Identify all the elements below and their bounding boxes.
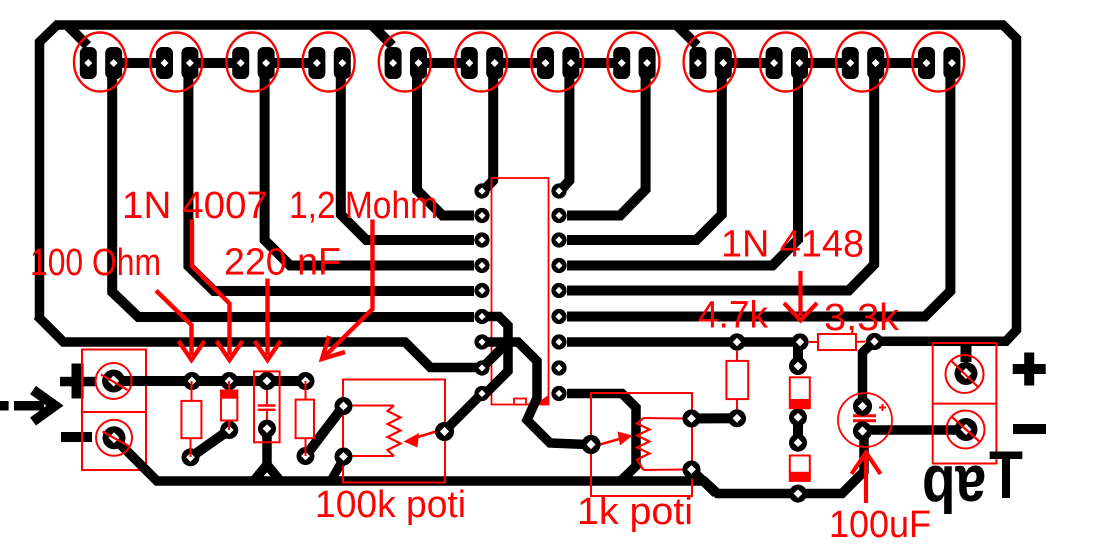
output + pad <box>946 355 984 393</box>
wire LED2 to LED3 link <box>190 58 241 68</box>
LED position 8 (pads + red circle) <box>607 33 659 92</box>
LED position 7 (pads + red circle) <box>531 33 583 92</box>
node diode1 top pad <box>789 357 807 375</box>
wire poti lower pad to bus <box>331 458 345 482</box>
node D1 bottom pad <box>220 421 238 439</box>
wire diode ladder mid dogbone <box>793 417 803 442</box>
annotation arrow 220nF <box>265 279 269 356</box>
wire LED3 to LED4 link <box>266 58 317 68</box>
node D1 top pad <box>220 372 238 390</box>
LED position 9 (pads + red circle) <box>684 33 736 92</box>
wire LED6 to LED7 link <box>495 58 546 68</box>
annotation arrow 1N4007 <box>192 220 230 356</box>
resistor 3,3k outline <box>809 334 866 350</box>
wire IC pin L6/L8/L9 internal strand <box>478 317 508 395</box>
diode 1N4148 #1 outline <box>790 377 810 408</box>
node R1 bottom pad <box>182 448 200 466</box>
input terminal box outline <box>82 350 146 471</box>
wire outer supply rail (top/left/right border) <box>40 25 1017 341</box>
wire IC pin L8 spur <box>484 342 508 366</box>
svg-text:1N 4148: 1N 4148 <box>721 224 864 266</box>
wire input+ rail <box>113 376 306 386</box>
capacitor 100uF outline <box>838 393 892 447</box>
wire top rail to LED5 left pad <box>373 26 393 46</box>
wire top rail to LED1 left pad <box>68 26 88 46</box>
svg-text:ab: ab <box>922 452 986 526</box>
wire border-left to pin L8 (ground feed) <box>37 316 476 368</box>
wire LED1 to LED2 link <box>114 58 165 68</box>
IC U1 outline (LM3914) <box>492 178 549 405</box>
input arrow symbol <box>0 390 55 422</box>
output terminal box outline <box>933 343 997 464</box>
output minus symbol <box>1013 424 1046 434</box>
wire IC pin R9 to bus via 1k poti <box>567 394 636 482</box>
wire rail pad874 to border <box>875 336 1009 346</box>
LED position 4 (pads + red circle) <box>303 33 355 92</box>
node cap- pad <box>853 421 872 440</box>
node 1,2M bottom pad <box>297 447 315 465</box>
resistor 100 Ohm outline <box>181 381 201 457</box>
diode 1N4007 outline <box>221 381 237 430</box>
svg-text:4.7k: 4.7k <box>698 295 769 337</box>
wire LED9 to LED10 link <box>723 58 774 68</box>
potentiometer 100k outline <box>343 380 445 483</box>
potentiometer 1k outline <box>591 393 692 496</box>
wire LED10 cathode to IC pin R4 <box>567 75 798 266</box>
wire LED9 cathode to IC pin R3 <box>567 75 722 240</box>
svg-text:1N 4007: 1N 4007 <box>122 185 268 227</box>
node 1,2M top pad <box>297 372 315 390</box>
wire LED7 to LED8 link <box>571 58 622 68</box>
wire 1k poti wiper to 4,7k pad <box>692 413 738 423</box>
svg-text:100 Ohm: 100 Ohm <box>30 242 161 284</box>
input plus symbol <box>60 364 95 399</box>
LED position 10 (pads + red circle) <box>760 33 812 92</box>
annotation arrow 100uF <box>864 455 868 503</box>
IC U1 right pin pads (10-18) <box>551 183 566 401</box>
annotation arrow 1,2 Mohm <box>324 220 373 358</box>
wire LED3 cathode to IC pin L4 <box>265 75 474 266</box>
output - pad <box>947 411 985 449</box>
node R1 top pad <box>183 372 201 390</box>
svg-text:100uF: 100uF <box>829 504 931 546</box>
wire IC pin L9 to 100k-poti wiper pad <box>447 397 479 429</box>
wire LED5 cathode to IC pin L2 <box>417 75 474 216</box>
resistor 1,2 Mohm outline <box>296 381 314 456</box>
wire 1k poti lower pad to bus <box>694 472 716 494</box>
svg-text:1k poti: 1k poti <box>577 491 693 533</box>
svg-text:100k poti: 100k poti <box>315 484 466 526</box>
LED position 1 (pads + red circle) <box>74 33 126 92</box>
capacitor 220nF outline <box>254 371 280 442</box>
input - pad <box>96 420 132 456</box>
LED position 6 (pads + red circle) <box>455 33 507 92</box>
IC U1 left pin pads (1-9) <box>474 183 489 401</box>
node 220nF bottom pad <box>258 420 276 438</box>
wire LED7 cathode to IC pin R1 <box>560 75 569 191</box>
wire LED6 cathode to IC pin L1 <box>483 75 493 191</box>
svg-text:T: T <box>989 437 1023 513</box>
wire LED8 cathode to IC pin R2 <box>567 75 646 216</box>
annotation arrow 100 Ohm <box>156 291 192 356</box>
input + pad <box>96 363 132 399</box>
LED position 5 (pads + red circle) <box>379 33 431 92</box>
node diode1 bottom pad <box>789 408 807 426</box>
wire IC pin R7 rail <box>567 337 800 347</box>
node diode2 bottom pad (on bus) <box>789 485 807 503</box>
node 1k poti left pad <box>581 435 600 454</box>
wire 220nF to bus <box>262 424 272 466</box>
LED position 3 (pads + red circle) <box>226 33 278 92</box>
input minus symbol <box>61 432 92 442</box>
node diode2 top pad <box>789 434 807 452</box>
node 4,7k top pad <box>728 333 745 350</box>
node 100k poti top-left pad <box>335 397 353 415</box>
wire LED11 to LED12 link <box>876 58 927 68</box>
wire LED2 cathode to IC pin L5 <box>188 75 474 291</box>
node 1k poti top-right pad <box>683 410 701 428</box>
wire diode ladder top dogbone <box>793 342 803 367</box>
annotation arrow 1N4148 <box>798 271 802 316</box>
node 100k poti bottom-left pad <box>335 448 353 466</box>
svg-text:1,2 Mohm: 1,2 Mohm <box>289 185 438 227</box>
wire R1-D1 dogbone <box>191 430 230 457</box>
LED position 2 (pads + red circle) <box>150 33 202 92</box>
node 1k poti bottom-right pad <box>683 461 701 479</box>
node 220nF top pad <box>258 372 276 390</box>
node 4,7k bottom pad <box>728 409 746 427</box>
resistor 4,7k outline <box>726 351 748 409</box>
wire LED1 cathode to IC pin L6 <box>112 75 474 317</box>
diode 1N4148 #2 outline <box>790 456 810 481</box>
node diode ladder top pad <box>791 333 808 350</box>
LED position 12 (pads + red circle) <box>912 33 964 92</box>
wire ground bus <box>117 433 864 494</box>
wire cap- to output- <box>863 425 967 435</box>
LED position 11 (pads + red circle) <box>836 33 888 92</box>
wire LED4 cathode to IC pin L3 <box>341 75 474 240</box>
wire cap+ to rail <box>863 342 875 411</box>
node 100k poti wiper pad <box>435 422 454 441</box>
wire LED10 to LED11 link <box>800 58 851 68</box>
output plus symbol <box>1013 353 1046 386</box>
wire IC pin L7 to 1k-poti pad <box>478 342 587 445</box>
wire 1,2M to poti dogbone <box>306 406 344 456</box>
svg-text:220 nF: 220 nF <box>224 242 341 284</box>
svg-text:3,3k: 3,3k <box>824 297 900 339</box>
wire LED5 to LED6 link <box>419 58 470 68</box>
wire LED12 cathode to IC pin R6 <box>567 75 950 317</box>
node cap+ pad <box>853 397 872 416</box>
label Tap (rotated) <box>922 437 1023 526</box>
wire top rail to LED9 left pad <box>678 26 698 46</box>
wire LED11 cathode to IC pin R5 <box>567 75 874 291</box>
wire output+ stub <box>961 344 972 362</box>
node rail pad <box>866 333 883 350</box>
